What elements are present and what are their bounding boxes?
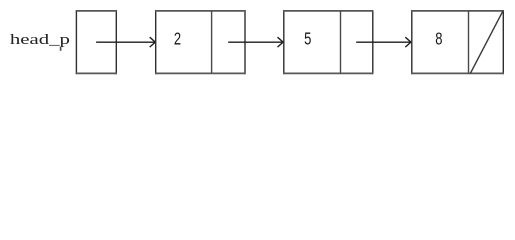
- null diagonal in node3 pointer cell: [470, 11, 503, 74]
- svg-text:head_p: head_p: [10, 31, 70, 48]
- svg-text:2: 2: [174, 30, 181, 49]
- node1 box: [155, 10, 246, 74]
- arrow node2 to node3: [356, 37, 411, 47]
- node1 divider: [211, 11, 213, 74]
- node3 divider: [468, 11, 470, 74]
- arrow node1 to node2: [228, 37, 283, 47]
- label head_p descender stem of p: [60, 47, 62, 51]
- svg-text:8: 8: [435, 30, 442, 49]
- node3 box: [411, 10, 504, 74]
- node2 divider: [340, 11, 342, 74]
- node2 box: [283, 10, 373, 74]
- svg-text:5: 5: [304, 30, 312, 49]
- arrow head_p box to node1: [96, 37, 155, 47]
- head pointer box: [76, 10, 117, 74]
